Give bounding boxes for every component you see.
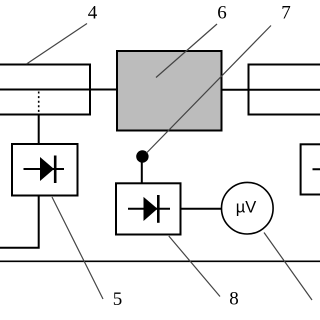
svg-text:6: 6 xyxy=(217,3,227,24)
svg-text:5: 5 xyxy=(113,289,123,310)
svg-text:µV: µV xyxy=(236,199,257,217)
svg-text:8: 8 xyxy=(229,289,239,310)
svg-text:4: 4 xyxy=(88,3,98,24)
svg-text:7: 7 xyxy=(281,3,291,24)
